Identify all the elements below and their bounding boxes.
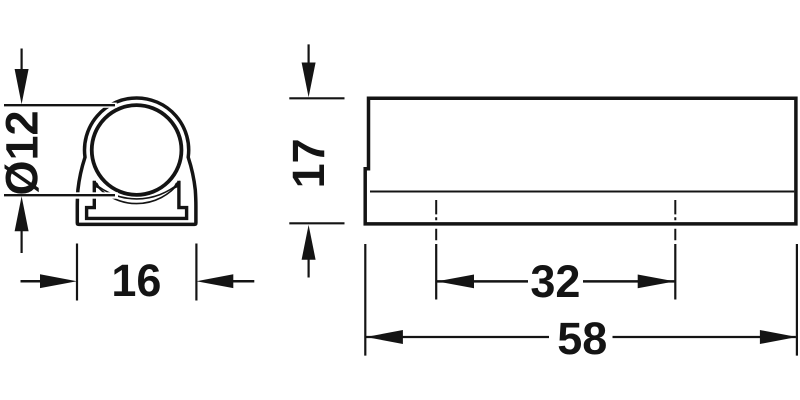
svg-text:Ø12: Ø12 [0,110,48,195]
svg-text:58: 58 [557,313,607,364]
circle hole [92,105,182,195]
dim 32 line [437,280,675,283]
saddle thin arc lower [94,183,179,204]
dim 17 [289,98,344,223]
cross-section outer profile [77,98,196,224]
dim 16 [77,244,196,301]
svg-text:32: 32 [530,256,580,307]
saddle thin arc upper [94,183,179,199]
wedge fill right [172,181,180,190]
center lines dash-dot [436,200,675,240]
white wipeout under bottom tangent line [0,192,118,198]
dim O12 tangent lines [4,105,115,195]
wedge fill left [94,181,102,190]
thin groove line [370,190,794,192]
dim 58 [365,244,797,356]
white wipeout under top tangent line [0,103,117,108]
svg-text:17: 17 [283,138,334,188]
svg-text:16: 16 [111,255,161,306]
dim O12 arrows [21,49,23,254]
cavity inner outline with notches [87,181,187,219]
side view rectangle [365,98,796,224]
extension lines 32 [436,244,675,300]
